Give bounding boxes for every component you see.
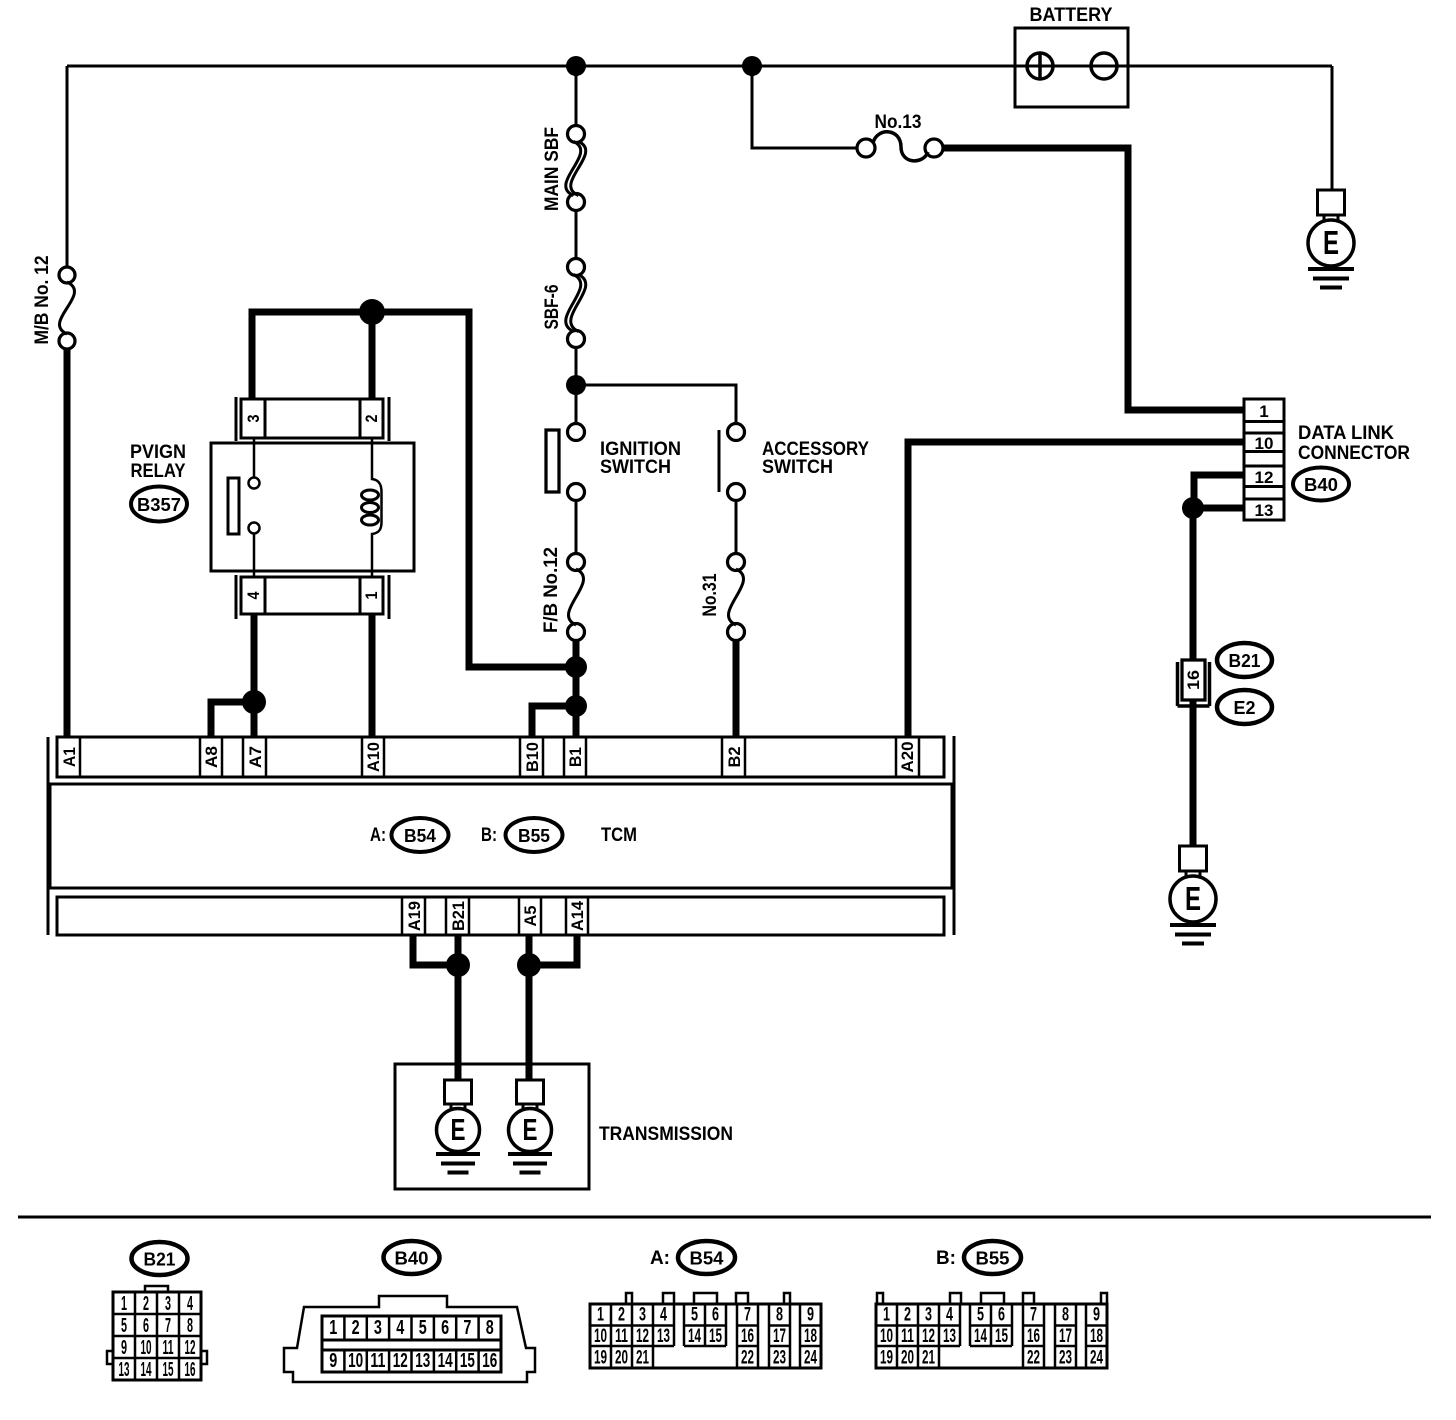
svg-text:9: 9 (1093, 1305, 1100, 1326)
svg-text:1: 1 (329, 1317, 337, 1339)
svg-text:A:: A: (370, 825, 386, 846)
svg-text:TRANSMISSION: TRANSMISSION (599, 1124, 733, 1145)
svg-text:13: 13 (943, 1326, 956, 1347)
svg-text:8: 8 (187, 1315, 193, 1337)
svg-text:3: 3 (165, 1293, 171, 1315)
TCM U2 body (50, 784, 952, 888)
svg-text:10: 10 (348, 1350, 363, 1372)
svg-text:B:: B: (936, 1248, 956, 1269)
svg-text:11: 11 (615, 1326, 628, 1347)
svg-text:5: 5 (419, 1317, 427, 1339)
accessory switch (728, 424, 745, 441)
svg-text:B1: B1 (566, 747, 585, 767)
svg-text:16: 16 (185, 1359, 196, 1381)
ground E transmission 2 (508, 1080, 552, 1173)
TCM connector end caps (48, 736, 954, 935)
fuse M/B No. 12 (59, 267, 75, 283)
E2 connector label (1217, 690, 1272, 724)
svg-text:20: 20 (901, 1348, 914, 1369)
transmission box (395, 1064, 589, 1189)
svg-text:10: 10 (1255, 434, 1274, 453)
ground E right bottom (1170, 846, 1216, 944)
svg-text:18: 18 (804, 1326, 817, 1347)
svg-text:12: 12 (922, 1326, 935, 1347)
svg-text:21: 21 (636, 1348, 649, 1369)
wire battery to ground E (1331, 66, 1334, 190)
wire to fuse No.13 (752, 66, 858, 148)
wire heavy relay feed loop (252, 312, 576, 667)
svg-text:21: 21 (922, 1348, 935, 1369)
node junction A19/B21 (446, 953, 470, 977)
wire heavy B21 down (455, 935, 462, 965)
wire heavy to TCM B10 (532, 706, 576, 737)
svg-text:A:: A: (650, 1248, 670, 1269)
svg-text:11: 11 (901, 1326, 914, 1347)
relay top connector row (236, 397, 389, 441)
wire heavy down to ground through connector 16 (1190, 508, 1197, 846)
wire heavy M/B fuse to TCM A1 (64, 348, 71, 737)
wire between fuses (575, 210, 578, 259)
svg-text:15: 15 (995, 1326, 1008, 1347)
svg-text:9: 9 (121, 1337, 127, 1359)
wire left drop to fuse M/B No.12 (66, 66, 69, 268)
svg-text:B21: B21 (144, 1250, 176, 1270)
svg-text:8: 8 (776, 1305, 783, 1326)
node data link ground junction (1182, 497, 1204, 519)
svg-text:19: 19 (880, 1348, 893, 1369)
wire heavy to transmission ground 2 (526, 965, 533, 1080)
relay switch bar (228, 478, 239, 534)
svg-text:13: 13 (119, 1359, 130, 1381)
svg-text:2: 2 (352, 1317, 360, 1339)
svg-text:4: 4 (244, 591, 263, 599)
svg-text:20: 20 (615, 1348, 628, 1369)
wire SBF-6 to ignition switch (575, 347, 578, 424)
wire heavy relay coil pin 2 (369, 312, 376, 399)
svg-text:B2: B2 (725, 747, 744, 768)
svg-text:DATA LINK: DATA LINK (1298, 423, 1394, 444)
svg-text:E: E (1185, 880, 1201, 917)
node branch to accessory switch (566, 375, 586, 395)
wire heavy No.31 to TCM B2 (733, 639, 740, 737)
node junction to fuse No.13 (742, 56, 762, 76)
svg-text:7: 7 (1030, 1305, 1037, 1326)
wire heavy to TCM A8 (211, 702, 254, 737)
svg-text:MAIN SBF: MAIN SBF (542, 127, 563, 211)
svg-text:1: 1 (362, 592, 381, 600)
svg-text:5: 5 (691, 1305, 698, 1326)
svg-text:12: 12 (393, 1350, 408, 1372)
svg-text:24: 24 (1090, 1348, 1103, 1369)
battery positive terminal (1027, 53, 1053, 79)
data link connector B40 box (1244, 399, 1284, 520)
svg-text:7: 7 (165, 1315, 171, 1337)
separator line (18, 1216, 1431, 1219)
svg-text:6: 6 (143, 1315, 149, 1337)
svg-text:E2: E2 (1234, 698, 1256, 718)
svg-text:M/B No. 12: M/B No. 12 (32, 256, 53, 345)
svg-text:11: 11 (163, 1337, 174, 1359)
wire heavy data link pin 10 to TCM A20 (908, 442, 1244, 737)
svg-text:E: E (1323, 224, 1339, 261)
svg-text:2: 2 (362, 415, 381, 423)
svg-text:B21: B21 (1229, 651, 1261, 671)
svg-text:4: 4 (396, 1317, 405, 1339)
TCM top connector row (57, 737, 944, 777)
svg-text:7: 7 (744, 1305, 751, 1326)
svg-text:10: 10 (141, 1337, 152, 1359)
relay contact leads (253, 438, 256, 577)
node relay output junction (242, 690, 266, 714)
svg-text:15: 15 (709, 1326, 722, 1347)
svg-text:1: 1 (121, 1293, 127, 1315)
svg-text:6: 6 (998, 1305, 1005, 1326)
svg-text:5: 5 (977, 1305, 984, 1326)
svg-text:13: 13 (415, 1350, 430, 1372)
wire branch to accessory switch (576, 385, 736, 424)
wire down to MAIN SBF (575, 66, 578, 126)
svg-text:15: 15 (460, 1350, 475, 1372)
fuse SBF-6 (568, 259, 585, 276)
svg-text:23: 23 (1059, 1348, 1072, 1369)
svg-text:18: 18 (1090, 1326, 1103, 1347)
svg-text:10: 10 (880, 1326, 893, 1347)
svg-text:9: 9 (329, 1350, 337, 1372)
svg-text:8: 8 (1062, 1305, 1069, 1326)
wire heavy to TCM A7 (251, 702, 258, 737)
B21 connector label (1217, 643, 1272, 677)
svg-text:16: 16 (741, 1326, 754, 1347)
svg-text:4: 4 (946, 1305, 953, 1326)
TCM bottom connector row (57, 897, 944, 935)
svg-text:12: 12 (636, 1326, 649, 1347)
ground E top right (1308, 190, 1354, 288)
svg-text:3: 3 (925, 1305, 932, 1326)
svg-text:22: 22 (1027, 1348, 1040, 1369)
B54 connector label (392, 818, 449, 852)
svg-text:A10: A10 (364, 742, 383, 772)
wire top bus from M/B No.12 to battery and E ground (67, 65, 1332, 68)
svg-text:23: 23 (773, 1348, 786, 1369)
svg-text:22: 22 (741, 1348, 754, 1369)
svg-text:19: 19 (594, 1348, 607, 1369)
svg-text:4: 4 (660, 1305, 667, 1326)
fuse MAIN SBF (568, 126, 585, 143)
ignition switch (568, 424, 585, 441)
wire accessory to No.31 (735, 500, 738, 555)
node junction to TCM B10 (565, 695, 587, 717)
svg-text:17: 17 (1059, 1326, 1072, 1347)
svg-text:3: 3 (374, 1317, 382, 1339)
svg-text:12: 12 (185, 1337, 196, 1359)
svg-text:B54: B54 (690, 1249, 724, 1269)
svg-text:15: 15 (163, 1359, 174, 1381)
svg-text:B40: B40 (395, 1249, 429, 1269)
wire heavy data link pin 12 elbow (1194, 475, 1244, 508)
node junction to relay feed (565, 656, 587, 678)
svg-text:SBF-6: SBF-6 (542, 285, 563, 330)
svg-text:1: 1 (1259, 402, 1268, 421)
svg-text:B55: B55 (518, 826, 550, 846)
ground E transmission 1 (436, 1080, 480, 1173)
svg-text:14: 14 (141, 1359, 152, 1381)
connector pinout B55 (876, 1241, 1107, 1369)
wire ignition to F/B No.12 (575, 500, 578, 555)
svg-text:SWITCH: SWITCH (600, 457, 671, 478)
svg-text:No.13: No.13 (875, 112, 922, 133)
svg-text:9: 9 (807, 1305, 814, 1326)
svg-text:A20: A20 (898, 742, 917, 773)
svg-text:24: 24 (804, 1348, 817, 1369)
relay U1 body (211, 443, 414, 571)
svg-text:13: 13 (1255, 501, 1274, 520)
wire heavy F/B No.12 to TCM B1 (573, 639, 580, 737)
svg-text:1: 1 (597, 1305, 604, 1326)
svg-text:1: 1 (883, 1305, 890, 1326)
svg-text:6: 6 (441, 1317, 449, 1339)
svg-text:2: 2 (904, 1305, 911, 1326)
node top junction to MAIN SBF (566, 56, 586, 76)
svg-text:14: 14 (438, 1350, 454, 1372)
battery negative terminal (1091, 53, 1117, 79)
svg-text:A14: A14 (568, 900, 587, 931)
svg-text:16: 16 (1184, 670, 1203, 690)
connector 16 inline (1182, 660, 1205, 700)
svg-text:B55: B55 (976, 1249, 1010, 1269)
fuse No.13 (857, 139, 875, 157)
svg-text:4: 4 (187, 1293, 193, 1315)
node relay top junction (359, 299, 385, 325)
B40 connector label (1293, 468, 1349, 501)
svg-text:A1: A1 (60, 747, 79, 767)
wire heavy A14 elbow (529, 935, 577, 965)
svg-text:16: 16 (482, 1350, 497, 1372)
svg-text:TCM: TCM (601, 825, 637, 846)
svg-text:17: 17 (773, 1326, 786, 1347)
wire heavy No.13 to data link connector pin 1 (943, 148, 1244, 410)
svg-text:No.31: No.31 (700, 573, 721, 616)
wire heavy relay pin 1 to TCM A10 (369, 614, 376, 737)
svg-text:A19: A19 (405, 901, 424, 931)
svg-text:3: 3 (639, 1305, 646, 1326)
svg-text:B10: B10 (523, 742, 542, 772)
svg-text:14: 14 (974, 1326, 987, 1347)
relay bottom connector row (236, 575, 389, 619)
svg-text:8: 8 (486, 1317, 494, 1339)
svg-text:SWITCH: SWITCH (762, 457, 833, 478)
B55 connector label (506, 818, 563, 852)
svg-text:B54: B54 (404, 826, 436, 846)
svg-text:RELAY: RELAY (131, 461, 186, 482)
svg-text:E: E (451, 1112, 466, 1147)
svg-text:A5: A5 (521, 906, 540, 927)
wire heavy A19 elbow (413, 935, 459, 965)
svg-text:CONNECTOR: CONNECTOR (1298, 443, 1410, 464)
svg-text:7: 7 (463, 1317, 471, 1339)
svg-text:F/B No.12: F/B No.12 (541, 547, 562, 633)
svg-text:E: E (523, 1112, 538, 1147)
node junction A5/A14 (517, 953, 541, 977)
svg-text:2: 2 (143, 1293, 149, 1315)
relay B357 connector label (131, 487, 187, 522)
svg-text:13: 13 (657, 1326, 670, 1347)
svg-text:6: 6 (712, 1305, 719, 1326)
connector pinout B21 (107, 1242, 207, 1381)
relay coil (372, 438, 382, 577)
svg-text:11: 11 (370, 1350, 385, 1372)
svg-text:14: 14 (688, 1326, 701, 1347)
svg-text:12: 12 (1255, 468, 1274, 487)
connector pinout B54 (590, 1241, 821, 1369)
svg-text:3: 3 (244, 415, 263, 423)
fuse No.31 (728, 554, 745, 571)
wire heavy A5 down (526, 935, 533, 965)
svg-text:B:: B: (481, 825, 497, 846)
wire heavy relay pin 4 down (251, 614, 258, 702)
connector pinout B40 (284, 1241, 535, 1382)
svg-text:10: 10 (594, 1326, 607, 1347)
svg-text:BATTERY: BATTERY (1030, 5, 1113, 26)
svg-text:2: 2 (618, 1305, 625, 1326)
wire heavy to transmission ground 1 (455, 965, 462, 1080)
svg-text:B21: B21 (449, 901, 468, 931)
svg-text:PVIGN: PVIGN (130, 442, 186, 463)
svg-text:A7: A7 (246, 746, 265, 768)
svg-text:A8: A8 (202, 746, 221, 768)
svg-text:B357: B357 (137, 495, 181, 515)
svg-text:B40: B40 (1304, 475, 1338, 495)
wire heavy pin 13 (1193, 505, 1244, 512)
svg-text:5: 5 (121, 1315, 127, 1337)
fuse F/B No.12 (568, 554, 585, 571)
svg-text:16: 16 (1027, 1326, 1040, 1347)
